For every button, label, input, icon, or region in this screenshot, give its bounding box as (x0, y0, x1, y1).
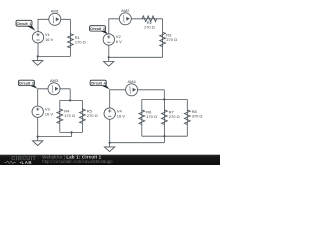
resistor R2 (horizontal) (142, 16, 157, 22)
ground C1 (33, 56, 43, 65)
svg-text:170 Ω: 170 Ω (75, 39, 86, 44)
wire C3 bottom to V3 (38, 136, 72, 138)
junction dot C3 bottom rail (70, 131, 72, 133)
svg-text:270 Ω: 270 Ω (166, 37, 177, 42)
svg-text:16 V: 16 V (45, 111, 54, 116)
tooltip Circuit_1 (16, 20, 35, 31)
svg-text:http://circuitlab.com/cavu/66h: http://circuitlab.com/cavu/66hs6ugo (42, 159, 113, 164)
voltage source V3 (32, 106, 43, 117)
junction dot C4 bottom rail (163, 135, 165, 137)
resistor R5 (80, 109, 86, 124)
wire C3 top rail (60, 99, 83, 101)
wire C2 right column down (162, 19, 164, 58)
junction dot C3 feed/top rail (69, 99, 71, 101)
tooltip Circuit_3 (18, 80, 37, 89)
ammeter AM2 (119, 13, 131, 25)
ammeter AM4 (126, 84, 138, 96)
wire C1 left: V1 bottom riser (37, 43, 39, 56)
tooltip Circuit_4 (90, 80, 110, 89)
svg-text:▪LAB: ▪LAB (20, 160, 33, 165)
voltage source V2 (103, 34, 114, 45)
wire C4 top rail (142, 98, 188, 100)
ammeter AM3 (48, 83, 60, 95)
svg-text:16 V: 16 V (45, 37, 54, 42)
junction dot C1 ground node (37, 55, 39, 57)
svg-text:370 Ω: 370 Ω (192, 114, 203, 119)
logo resistor glyph (5, 161, 17, 164)
ground C2 (104, 57, 114, 66)
resistor R1 (68, 34, 74, 49)
wire C1 right: R1 column down (69, 19, 71, 56)
svg-text:Circuit_4: Circuit_4 (91, 81, 106, 85)
svg-text:AM3: AM3 (50, 78, 59, 83)
wire C4 V4 bottom riser (109, 119, 111, 142)
resistor R4 (57, 109, 63, 124)
svg-text:270 Ω: 270 Ω (169, 114, 180, 119)
junction dot C3 ground node (37, 136, 39, 138)
wire C4 feed down to parallel rail (163, 90, 165, 100)
wire C3 bottom rail (60, 131, 83, 133)
tooltip Circuit_2 (90, 26, 109, 35)
junction dot C4 ground node (109, 142, 111, 144)
wire C3 right column (81, 100, 83, 132)
resistor R8 (184, 110, 190, 125)
svg-text:16 V: 16 V (117, 113, 126, 118)
junction dot C4 feed/top rail (163, 98, 165, 100)
wire C3 left column (59, 100, 61, 132)
wire C4 top: V4 riser up and across to feed (110, 90, 165, 108)
svg-text:AM4: AM4 (127, 79, 136, 84)
wire C4 bottom to V4 (110, 142, 165, 144)
svg-text:6 V: 6 V (116, 39, 122, 44)
svg-text:Circuit_1: Circuit_1 (17, 22, 32, 26)
resistor R7 (162, 110, 168, 125)
wire C1 bottom (38, 55, 71, 57)
wire C3 feed down to parallel rail (69, 89, 71, 101)
wire C4 middle column R7 (163, 99, 165, 136)
ground C4 (104, 143, 114, 152)
wire C3 top: V3 riser up and across to feed (38, 89, 70, 106)
wire C4 bottom rail (142, 135, 188, 137)
svg-text:270 Ω: 270 Ω (87, 113, 98, 118)
svg-text:AM1: AM1 (51, 9, 60, 14)
svg-text:170 Ω: 170 Ω (146, 114, 157, 119)
resistor R3 (160, 32, 166, 47)
svg-text:170 Ω: 170 Ω (144, 25, 155, 30)
wire C2 top: V2 riser up and across to right column (109, 19, 163, 34)
wire C2 left: V2 bottom riser (108, 45, 110, 57)
wire C3 stub from bottom rail down (71, 132, 73, 136)
ammeter AM1 (49, 13, 61, 25)
ground C3 (33, 137, 43, 146)
wire C4 stub from bottom rail down (163, 136, 165, 143)
wire C4 left column R6 (141, 99, 143, 136)
resistor R6 (139, 110, 145, 125)
voltage source V4 (104, 108, 115, 119)
wire C1 top: V1 riser up and across to R1 column (38, 19, 70, 31)
svg-text:AM2: AM2 (121, 8, 130, 13)
wire C2 bottom (109, 56, 163, 58)
wire C3 V3 bottom riser (37, 117, 39, 136)
voltage source V1 (32, 32, 43, 43)
svg-text:170 Ω: 170 Ω (64, 113, 75, 118)
svg-text:Circuit_2: Circuit_2 (90, 27, 105, 31)
svg-text:Circuit_3: Circuit_3 (19, 81, 34, 85)
junction dot C2 ground node (108, 56, 110, 58)
wire C4 right column R8 (186, 99, 188, 136)
